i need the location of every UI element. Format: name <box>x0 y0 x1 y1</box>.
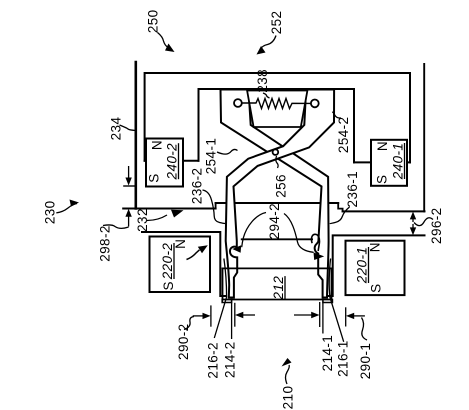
magnet 220-1 box <box>346 241 405 295</box>
leader 234 <box>120 125 136 131</box>
svg-text:S: S <box>161 281 176 290</box>
svg-text:220-2: 220-2 <box>160 243 175 281</box>
svg-text:296-2: 296-2 <box>429 207 444 244</box>
leader 230 <box>56 204 77 213</box>
label 212 underlined <box>271 276 286 301</box>
svg-text:230: 230 <box>43 200 58 224</box>
svg-text:214-2: 214-2 <box>223 341 238 378</box>
arrowhead 210 <box>282 358 292 367</box>
extension line 290-2 outer <box>210 305 212 326</box>
arrowhead 250 <box>165 44 175 53</box>
svg-text:N: N <box>375 141 390 151</box>
pin joint right <box>311 100 319 108</box>
svg-text:290-2: 290-2 <box>176 323 191 360</box>
leader 236-2 <box>203 190 226 223</box>
stator ceiling <box>199 88 355 90</box>
stator right shelf <box>354 161 410 163</box>
leader 250 <box>158 33 169 48</box>
svg-text:234: 234 <box>109 117 124 141</box>
svg-text:236-1: 236-1 <box>345 171 360 208</box>
leader 216-1 <box>329 259 343 342</box>
magnet bracket left <box>142 232 226 296</box>
right foot curl <box>311 234 319 250</box>
extension line 290-1 outer <box>345 307 347 326</box>
dimension arrow 298-2 upper <box>128 166 130 178</box>
leader 296-2 <box>414 218 433 226</box>
dimension arrow 296-2 upper <box>412 218 414 222</box>
spring 238 <box>242 99 311 109</box>
svg-text:S: S <box>375 175 390 184</box>
keycap body 212 left side <box>222 268 224 299</box>
svg-text:S: S <box>368 284 383 293</box>
arrowhead 230 <box>70 200 80 207</box>
plate step left <box>215 203 217 209</box>
keycap body 212 bottom <box>223 299 332 301</box>
leader 214-1 <box>322 303 324 334</box>
arc 294-2 left <box>242 213 266 248</box>
leader 236-1 <box>330 207 350 223</box>
stator left inner wall <box>198 89 200 161</box>
leader 214-2 <box>231 303 233 339</box>
magnet 240-2 box <box>146 139 183 187</box>
plate raised platform <box>216 202 339 204</box>
stator right inner wall <box>353 89 355 162</box>
keycap bottom tab right <box>323 300 333 303</box>
svg-text:216-1: 216-1 <box>336 340 351 377</box>
center hanging trapezoid block <box>247 91 307 128</box>
leader 216-2 <box>214 259 226 339</box>
svg-text:254-2: 254-2 <box>336 117 351 154</box>
leader 254-1 <box>217 149 238 154</box>
leader 256 <box>276 156 278 168</box>
leader 290-2 <box>184 317 194 330</box>
svg-text:290-1: 290-1 <box>358 343 373 380</box>
svg-text:298-2: 298-2 <box>98 225 113 262</box>
svg-text:N: N <box>173 239 188 249</box>
leader 210 <box>286 365 290 384</box>
svg-text:236-2: 236-2 <box>190 168 205 205</box>
svg-text:232: 232 <box>135 208 150 232</box>
svg-text:250: 250 <box>146 9 161 33</box>
link 254-1 (left bracket, band to lower right, leg and foot) <box>221 90 329 298</box>
svg-text:210: 210 <box>281 386 296 410</box>
arrowhead 232 <box>147 215 167 221</box>
plate 232 left segment <box>123 208 215 210</box>
pin joint left <box>234 99 242 107</box>
arrowhead 294-2 left <box>232 245 241 253</box>
arrowhead 294-2 right <box>314 252 325 260</box>
arrow inside magnet 220-2 <box>187 250 200 260</box>
svg-text:S: S <box>147 174 162 183</box>
dimension arrow 296-2 lower <box>412 224 414 229</box>
pivot 256 <box>273 149 279 155</box>
svg-text:240-2: 240-2 <box>165 143 180 181</box>
keycap body 212 top <box>223 267 332 269</box>
stator outer box 252 <box>145 73 410 162</box>
svg-text:254-1: 254-1 <box>204 138 219 175</box>
arrowhead 252 <box>257 46 266 55</box>
dimension arrow 298-2 lower <box>128 216 130 227</box>
leader 290-1 <box>362 318 368 341</box>
keycap bottom tab left <box>222 300 231 303</box>
leader 252 <box>260 36 276 50</box>
svg-text:238: 238 <box>255 69 270 93</box>
extension line 290-2 inner <box>234 303 236 327</box>
magnet 240-1 box <box>371 140 407 186</box>
wall right (support wall) <box>423 64 425 211</box>
wall 234 (left support wall) <box>135 62 138 209</box>
svg-text:N: N <box>368 243 383 253</box>
svg-text:252: 252 <box>269 11 284 35</box>
svg-text:214-1: 214-1 <box>320 335 335 372</box>
dimension arrow 290-2 <box>193 315 204 317</box>
magnet bracket right <box>329 235 425 296</box>
carriage top platform <box>242 238 312 240</box>
leader 298-2 <box>103 225 129 228</box>
keycap body 212 right side <box>331 268 333 299</box>
svg-text:N: N <box>150 140 165 150</box>
dimension arrow 214-1 inner <box>294 314 312 316</box>
magnet 220-2 box <box>150 237 211 293</box>
svg-text:256: 256 <box>274 174 289 198</box>
svg-text:216-2: 216-2 <box>206 342 221 379</box>
arc 294-2 right <box>284 214 314 253</box>
leader 238 <box>263 93 270 98</box>
svg-text:220-1: 220-1 <box>355 247 370 285</box>
extension line 290-1 inner <box>319 302 321 327</box>
svg-text:212: 212 <box>271 276 286 301</box>
plate 232 right segment <box>343 210 425 212</box>
extension tick 298-2 <box>123 185 136 187</box>
svg-text:240-1: 240-1 <box>391 143 406 181</box>
stator left shelf <box>145 160 199 162</box>
svg-text:294-2: 294-2 <box>267 203 282 240</box>
dimension arrow 290-1 <box>353 315 365 317</box>
dimension arrow 214-2 inner <box>243 314 255 316</box>
link 254-2 (right bracket, band to lower left, leg and foot) <box>226 90 334 298</box>
leader 254-2 <box>332 112 341 118</box>
plate step right <box>338 203 342 211</box>
